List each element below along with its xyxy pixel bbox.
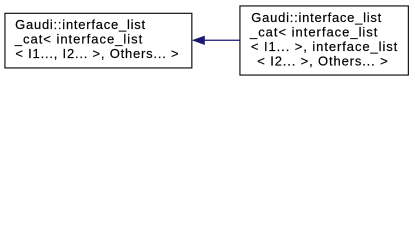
node box: Gaudi::interface_list_cat< interface_list< I1..., I2... >, Others... > (left) (5, 13, 192, 68)
svg-text:_cat< interface_list: _cat< interface_list (249, 24, 378, 39)
node box: Gaudi::interface_list_cat< interface_list< I1... >, interface_list< I2... >, Others... > (right) (240, 6, 408, 75)
svg-text:Gaudi::interface_list: Gaudi::interface_list (15, 17, 145, 32)
svg-text:Gaudi::interface_list: Gaudi::interface_list (251, 10, 381, 25)
svg-text:< I1..., I2... >, Others... >: < I1..., I2... >, Others... > (15, 46, 178, 61)
svg-text:< I2... >, Others... >: < I2... >, Others... > (257, 53, 387, 68)
inheritance arrow (from right box pointing to left box) (193, 36, 240, 45)
svg-text:< I1... >, interface_list: < I1... >, interface_list (251, 39, 398, 54)
svg-text:_cat< interface_list: _cat< interface_list (14, 31, 143, 46)
